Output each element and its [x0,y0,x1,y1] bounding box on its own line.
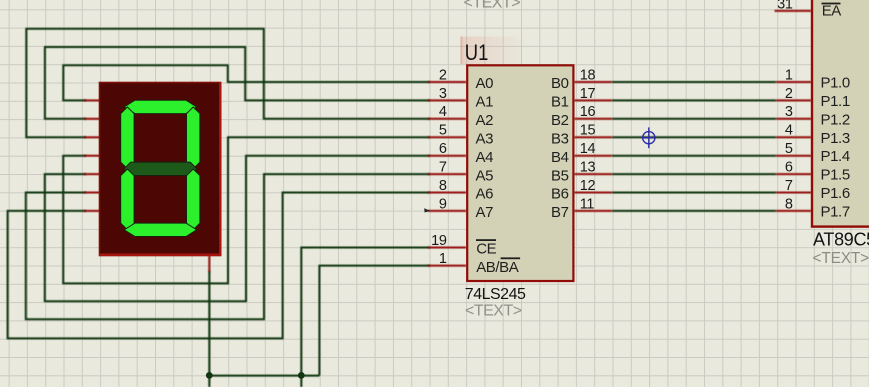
svg-text:A1: A1 [476,94,494,111]
svg-text:17: 17 [580,86,596,102]
svg-text:9: 9 [439,196,447,212]
svg-text:B4: B4 [551,149,569,166]
svg-text:11: 11 [580,196,595,212]
svg-text:14: 14 [580,141,596,157]
svg-text:4: 4 [785,123,793,139]
svg-text:18: 18 [580,67,596,83]
svg-text:B0: B0 [551,75,569,92]
svg-text:74LS245: 74LS245 [465,286,526,303]
svg-text:AT89C51: AT89C51 [813,230,869,250]
svg-text:1: 1 [785,67,793,83]
svg-text:6: 6 [439,141,447,157]
svg-text:CE: CE [476,241,496,258]
svg-text:B3: B3 [551,131,569,148]
svg-text:<TEXT>: <TEXT> [813,250,869,267]
svg-text:1: 1 [439,251,447,267]
svg-text:<TEXT>: <TEXT> [464,0,521,12]
svg-text:A2: A2 [476,112,494,129]
svg-text:8: 8 [439,178,447,194]
svg-text:P1.6: P1.6 [821,185,850,202]
svg-text:A6: A6 [476,186,494,203]
svg-text:P1.3: P1.3 [821,130,850,147]
svg-text:2: 2 [785,86,793,102]
svg-text:6: 6 [785,160,793,176]
svg-text:P1.2: P1.2 [821,111,850,128]
svg-text:A5: A5 [476,167,494,184]
svg-text:7: 7 [439,160,447,176]
svg-text:13: 13 [580,160,596,176]
svg-text:19: 19 [431,233,447,249]
svg-text:P1.0: P1.0 [821,75,850,92]
svg-text:EA: EA [822,2,842,19]
svg-text:16: 16 [580,104,596,120]
svg-text:5: 5 [785,141,793,157]
svg-text:P1.1: P1.1 [821,93,850,110]
svg-text:A7: A7 [476,204,494,221]
svg-text:A0: A0 [476,75,494,92]
svg-text:7: 7 [785,178,793,194]
svg-text:B2: B2 [551,112,569,129]
svg-text:B1: B1 [551,94,569,111]
svg-text:15: 15 [580,123,596,139]
svg-text:3: 3 [785,104,793,120]
svg-text:B6: B6 [551,186,569,203]
svg-text:12: 12 [580,178,596,194]
svg-text:P1.4: P1.4 [821,148,850,165]
svg-text:3: 3 [439,86,447,102]
svg-text:8: 8 [785,196,793,212]
svg-text:<TEXT>: <TEXT> [465,303,522,320]
svg-text:B7: B7 [551,204,569,221]
svg-text:31: 31 [777,0,793,12]
svg-text:U1: U1 [465,40,489,65]
svg-text:P1.5: P1.5 [821,167,850,184]
svg-text:B5: B5 [551,167,569,184]
svg-text:4: 4 [439,104,447,120]
svg-text:2: 2 [439,67,447,83]
svg-text:5: 5 [439,123,447,139]
svg-text:A4: A4 [476,149,494,166]
svg-text:AB/BA: AB/BA [476,259,519,276]
svg-text:A3: A3 [476,131,494,148]
svg-text:P1.7: P1.7 [821,203,850,220]
